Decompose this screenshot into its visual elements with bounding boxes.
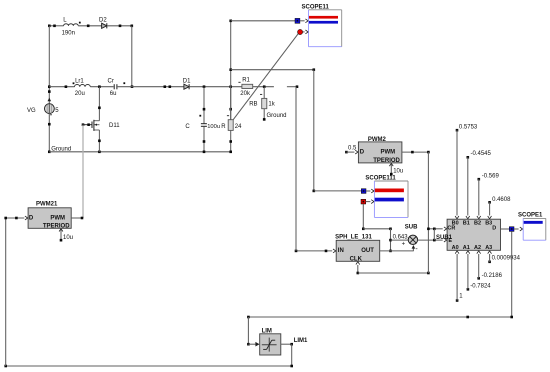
svg-text:PWM: PWM: [381, 150, 396, 156]
svg-text:0.643: 0.643: [393, 235, 409, 241]
wire CLK rail: [358, 272, 429, 274]
svg-text:LIM1: LIM1: [294, 338, 308, 344]
junction: [229, 140, 232, 143]
wire RB lower to ground: [263, 109, 265, 120]
capacitor C: [185, 124, 220, 130]
arrow into CR: [444, 227, 447, 231]
wire LIM1 down: [291, 344, 293, 366]
wire sense vertical: [313, 70, 315, 191]
wire L to D2: [78, 25, 101, 27]
junction: [389, 239, 392, 242]
scope SCOPE11: [302, 4, 342, 46]
junction: [433, 228, 436, 231]
wire right vertical of top branch: [131, 26, 133, 87]
junction: [427, 272, 430, 275]
wire gate control (gray): [82, 125, 84, 218]
polarity dot of Cr: [123, 82, 125, 84]
svg-text:0.5753: 0.5753: [459, 125, 478, 131]
scope11 input square: [295, 18, 308, 23]
wire feedback rail y317: [248, 316, 511, 318]
wire D2 to corner: [107, 25, 132, 27]
junction: [81, 217, 84, 220]
polarity dot of L: [79, 22, 81, 24]
svg-text:Ground: Ground: [51, 147, 71, 153]
svg-text:D11: D11: [109, 123, 120, 129]
block SPH_LE_131: [335, 235, 380, 263]
junction: [362, 228, 365, 231]
polarity dot of Lr1: [73, 82, 75, 84]
arrow into E: [444, 238, 447, 242]
svg-text:10u: 10u: [63, 235, 73, 241]
svg-text:0.5: 0.5: [348, 146, 357, 152]
wire top-left rail segment: [49, 25, 63, 27]
junction RB node: [263, 85, 266, 88]
wire sense tap: [287, 86, 297, 88]
junction: [48, 151, 51, 154]
junction: [247, 316, 250, 319]
svg-text:24: 24: [235, 124, 242, 130]
junction: [229, 108, 232, 111]
polarity dot of C: [199, 115, 201, 117]
wire C branch lower: [203, 127, 205, 152]
junction: [229, 20, 232, 23]
svg-text:10u: 10u: [393, 168, 403, 174]
resistor R 24: [221, 120, 242, 131]
junction: [389, 250, 392, 253]
svg-text:PWM21: PWM21: [36, 202, 58, 208]
scope SCOPE111: [365, 176, 408, 218]
wire plus input of SUB: [391, 239, 408, 241]
wire diagonal probe to SCOPE11: [233, 33, 298, 119]
svg-text:20u: 20u: [75, 91, 85, 97]
junction MOSFET drain node: [98, 85, 101, 88]
wire scope11 horizontal: [231, 20, 295, 22]
svg-text:IN: IN: [338, 248, 344, 254]
block SUB1: [436, 219, 501, 251]
inductor Lr1: [75, 78, 91, 97]
wire into LIM: [247, 342, 259, 347]
resistor RB 1k: [249, 98, 276, 108]
wire far-left vertical: [5, 218, 7, 366]
junction: [427, 151, 430, 154]
node -0.2186 A2 input: [477, 251, 503, 280]
svg-text:R: R: [221, 124, 226, 130]
junction: [295, 250, 298, 253]
svg-text:-0.7824: -0.7824: [470, 284, 491, 290]
scope1 input square: [509, 227, 514, 232]
junction: [290, 365, 293, 368]
minus marker of R: [227, 115, 229, 117]
junction: [48, 123, 51, 126]
wire MOSFET source: [98, 130, 100, 152]
wire into SCOPE1: [514, 227, 523, 231]
svg-text:OUT: OUT: [361, 248, 374, 254]
svg-text:20k: 20k: [240, 91, 251, 97]
junction: [53, 25, 56, 28]
junction: [65, 85, 68, 88]
junction: [433, 239, 436, 242]
junction: [325, 250, 328, 253]
wire CR branch: [428, 228, 442, 230]
svg-text:C: C: [185, 124, 190, 130]
wire R branch upper: [230, 87, 232, 120]
junction: [98, 151, 101, 154]
node -0.4545 B1 input: [466, 151, 492, 219]
svg-text:190n: 190n: [62, 30, 75, 36]
svg-text:B2: B2: [474, 220, 481, 226]
wire D-output down vertical: [511, 231, 513, 317]
svg-text:B1: B1: [463, 220, 470, 226]
wire Lr1 to Cr: [90, 86, 113, 88]
wire middle rail seg1: [49, 86, 74, 88]
junction: [427, 228, 430, 231]
svg-text:-0.569: -0.569: [482, 173, 500, 179]
wire SUB output: [418, 239, 443, 241]
wire CLK vertical: [356, 262, 360, 273]
svg-text:A0: A0: [452, 245, 459, 251]
node 0.4608 B3 input: [488, 197, 511, 219]
junction: [290, 343, 293, 346]
wire C branch upper: [203, 87, 205, 124]
wire minus input of SUB: [412, 245, 416, 251]
wire ground rail: [49, 151, 230, 153]
wire PWM2 output: [402, 151, 429, 153]
junction: [466, 316, 469, 319]
svg-text:100u: 100u: [207, 124, 220, 130]
junction gate: [82, 123, 85, 126]
svg-text:RB: RB: [249, 101, 257, 107]
junction: [357, 272, 360, 275]
node 0.5753 B0 input: [455, 125, 478, 219]
wire scope11 vertical: [230, 21, 232, 120]
wire bottom rail: [6, 365, 292, 367]
wire LIM output: [281, 338, 308, 344]
wire feedback vertical: [390, 229, 392, 251]
node -0.7824 A1 input: [466, 251, 491, 291]
capacitor Cr: [108, 78, 117, 97]
junction: [510, 316, 513, 319]
svg-text:-0.4545: -0.4545: [471, 151, 492, 157]
junction top-left corner: [48, 25, 51, 28]
node 1 A0 input: [455, 251, 463, 302]
wire MOSFET drain: [98, 87, 100, 121]
junction: [313, 68, 316, 71]
svg-text:CR: CR: [447, 225, 455, 231]
pwm block PWM2: [358, 137, 402, 164]
svg-text:1k: 1k: [268, 101, 275, 107]
svg-text:D1: D1: [183, 79, 191, 85]
svg-text:VG: VG: [27, 108, 36, 114]
svg-text:A1: A1: [463, 245, 470, 251]
junction: [169, 85, 172, 88]
wire PWM21 input: [6, 216, 28, 220]
minus marker of R1: [238, 81, 240, 83]
node 0.0009934 A3 input: [488, 251, 521, 263]
wire left vertical lower: [48, 113, 50, 151]
junction: [411, 151, 414, 154]
junction: [229, 68, 232, 71]
svg-text:D: D: [29, 215, 34, 221]
junction: [15, 217, 18, 220]
svg-text:TPERIOD: TPERIOD: [43, 224, 70, 230]
wire red input vertical: [362, 204, 364, 229]
junction: [203, 151, 206, 154]
junction: [87, 25, 90, 28]
wire R1 to RB node: [253, 86, 274, 88]
diode D1: [183, 79, 191, 90]
wire feedback horizontal: [363, 228, 390, 230]
wire sense vertical long: [295, 87, 297, 251]
svg-text:A2: A2: [474, 245, 481, 251]
wire D1 to R1: [189, 86, 242, 88]
transistor D11: [92, 120, 120, 131]
node 10u TPERIOD input of PWM2: [389, 163, 403, 176]
polarity arrow of VG: [48, 98, 52, 102]
node -0.569 B2 input: [477, 173, 500, 218]
svg-text:Lr1: Lr1: [75, 78, 84, 84]
svg-text:Ground: Ground: [267, 113, 287, 119]
svg-text:CLK: CLK: [350, 257, 363, 263]
junction: [119, 25, 122, 28]
wire MOSFET gate lead: [83, 124, 92, 126]
svg-text:B3: B3: [485, 220, 492, 226]
minus marker of RB: [260, 93, 262, 95]
svg-text:SPH_LE_131: SPH_LE_131: [335, 235, 372, 241]
svg-text:PWM: PWM: [50, 215, 65, 221]
svg-text:D: D: [360, 150, 365, 156]
wire down to LIM: [247, 317, 249, 344]
junction: [229, 151, 232, 154]
wire RB upper: [263, 87, 265, 99]
junction: [98, 140, 101, 143]
svg-text:D2: D2: [99, 18, 107, 24]
scope111 red input square: [361, 199, 374, 204]
svg-text:SCOPE1: SCOPE1: [518, 213, 543, 219]
wire IN input: [296, 249, 336, 253]
ground label: [51, 147, 71, 153]
wire OUT output: [380, 250, 414, 252]
junction sense tap: [296, 85, 299, 88]
junction: [4, 217, 7, 220]
junction: [203, 108, 206, 111]
wire R branch lower: [230, 130, 232, 151]
svg-text:TPERIOD: TPERIOD: [373, 158, 400, 164]
junction: [87, 123, 90, 126]
inductor L: [62, 18, 79, 37]
junction: [203, 140, 206, 143]
wire PWM21 output: [71, 217, 83, 219]
wire CR-E link vertical: [433, 229, 435, 240]
junction R branch: [229, 85, 232, 88]
wire left vertical upper: [48, 26, 50, 105]
wire endpoint dot: [48, 90, 51, 93]
svg-text:0.0009934: 0.0009934: [492, 256, 521, 262]
svg-text:Cr: Cr: [108, 78, 114, 84]
svg-text:SUB: SUB: [405, 225, 418, 231]
scope111 blue input square: [361, 189, 374, 194]
sum block SUB: [393, 225, 419, 254]
svg-text:R1: R1: [242, 77, 250, 83]
svg-text:+: +: [402, 241, 406, 247]
svg-text:6u: 6u: [110, 91, 117, 97]
node Ground of RB: [263, 113, 287, 121]
svg-text:-0.2186: -0.2186: [482, 273, 503, 279]
wire PWM2 down vertical: [427, 152, 429, 273]
junction: [48, 85, 51, 88]
scope11 input circle: [298, 29, 309, 34]
junction: [164, 85, 167, 88]
svg-text:A3: A3: [485, 245, 492, 251]
node 10u TPERIOD input of PWM21: [59, 228, 73, 241]
wire to scope111 blue input: [314, 190, 362, 192]
scope SCOPE1: [518, 213, 546, 241]
junction C branch: [203, 85, 206, 88]
limiter LIM: [260, 329, 281, 355]
svg-text:0.4608: 0.4608: [492, 197, 511, 203]
svg-text:E: E: [448, 238, 452, 244]
node 0.5 input of PWM2: [345, 146, 358, 154]
junction: [4, 365, 7, 368]
pwm block PWM21: [28, 202, 71, 230]
wire top sense rail: [231, 69, 314, 71]
junction top-right corner: [131, 25, 134, 28]
diode D2: [99, 18, 107, 29]
junction: [131, 85, 134, 88]
junction: [98, 107, 101, 110]
resistor R1 20k: [240, 77, 252, 97]
wire Cr to D1: [118, 86, 184, 88]
junction corner: [313, 190, 316, 193]
junction: [389, 228, 392, 231]
wire D output: [501, 228, 510, 230]
voltage source VG: [27, 104, 59, 115]
svg-text:D: D: [492, 225, 496, 231]
